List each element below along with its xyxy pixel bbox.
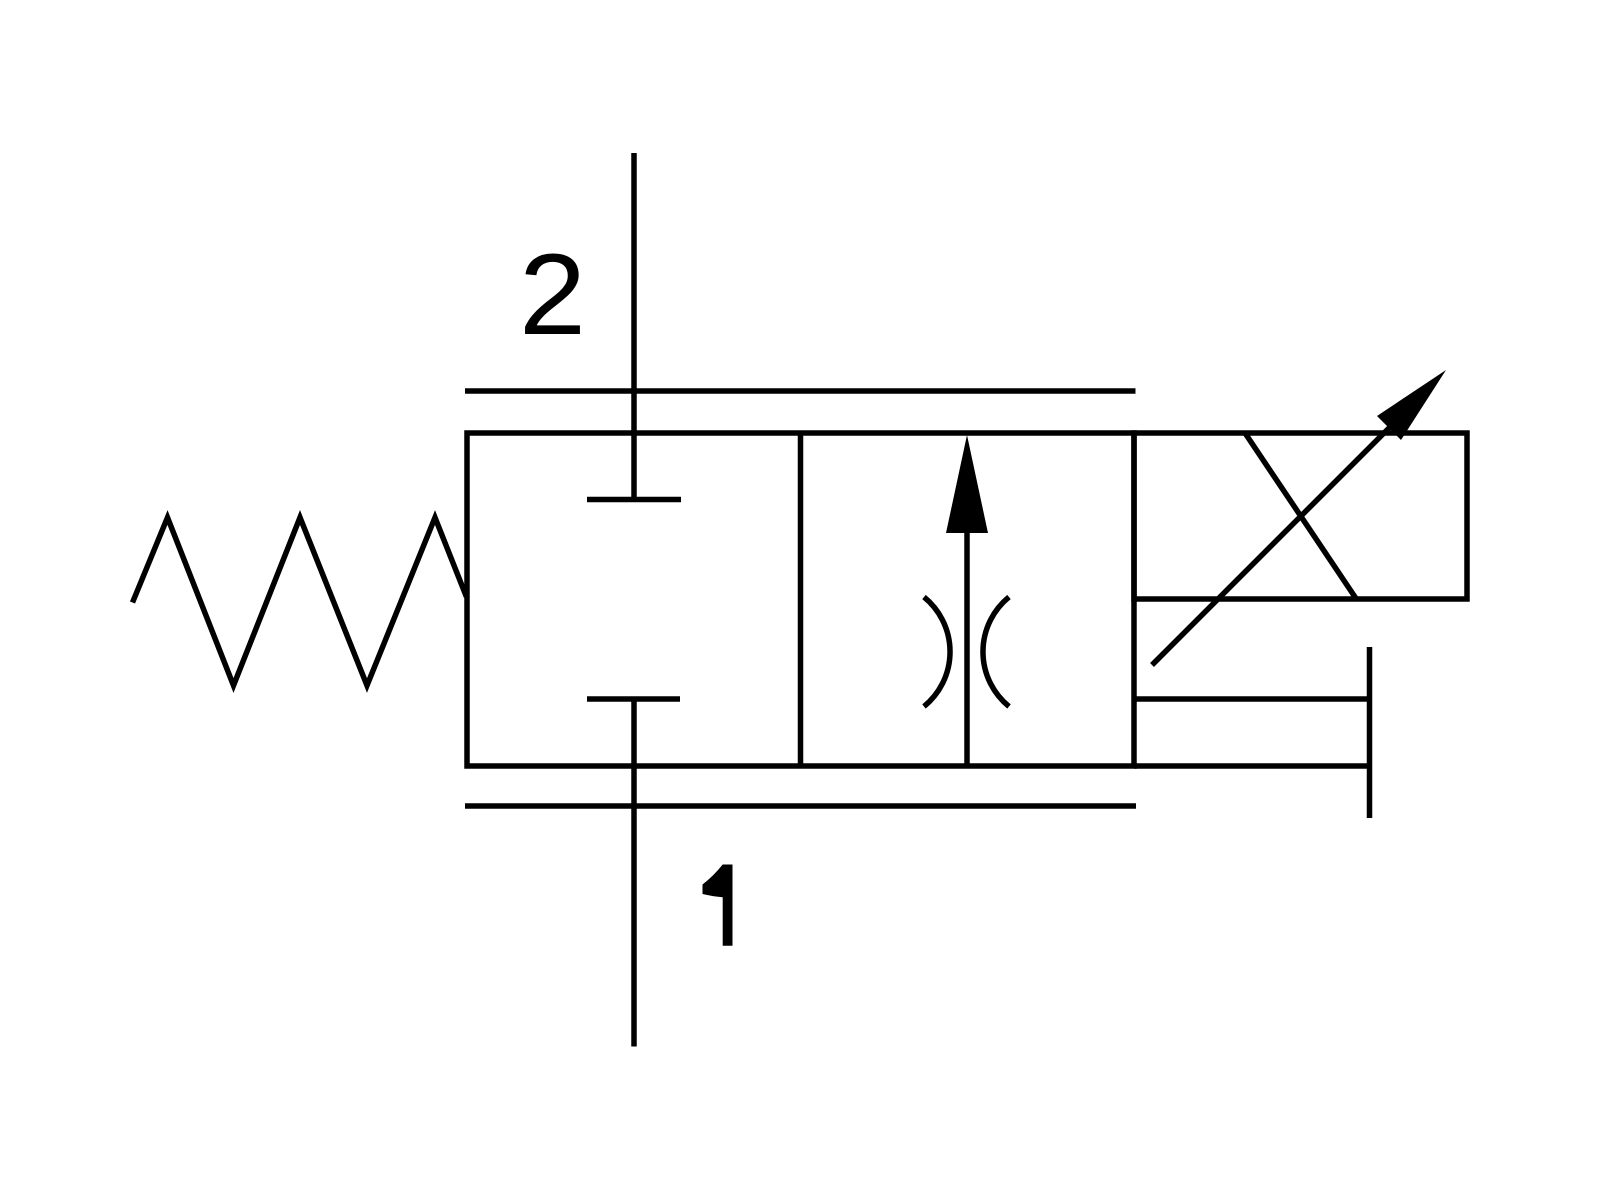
- throttle arc right: [983, 597, 1009, 707]
- label port 1: [703, 865, 733, 946]
- port 1 line: [631, 699, 637, 1047]
- flow arrow shaft: [964, 525, 970, 766]
- pilot line upper: [1134, 696, 1370, 702]
- spring: [133, 518, 467, 686]
- throttle arc left: [924, 597, 950, 707]
- solenoid box: [1134, 433, 1467, 599]
- valve body divider: [798, 433, 804, 766]
- valve body outer box: [467, 433, 1134, 766]
- pilot line lower: [1134, 763, 1370, 769]
- flow arrow head: [946, 435, 988, 533]
- solenoid diagonal: [1245, 433, 1356, 599]
- adjustment arrow shaft: [1152, 397, 1420, 665]
- port 2 line: [631, 153, 637, 500]
- pilot plug bar: [1367, 647, 1373, 818]
- seat crossbar top: [587, 497, 681, 503]
- port 2 rail line: [465, 388, 1136, 394]
- adjustment arrow head: [1377, 370, 1446, 440]
- seat crossbar bottom: [587, 696, 680, 702]
- svg-text:2: 2: [519, 230, 586, 359]
- port 1 rail line: [465, 803, 1136, 809]
